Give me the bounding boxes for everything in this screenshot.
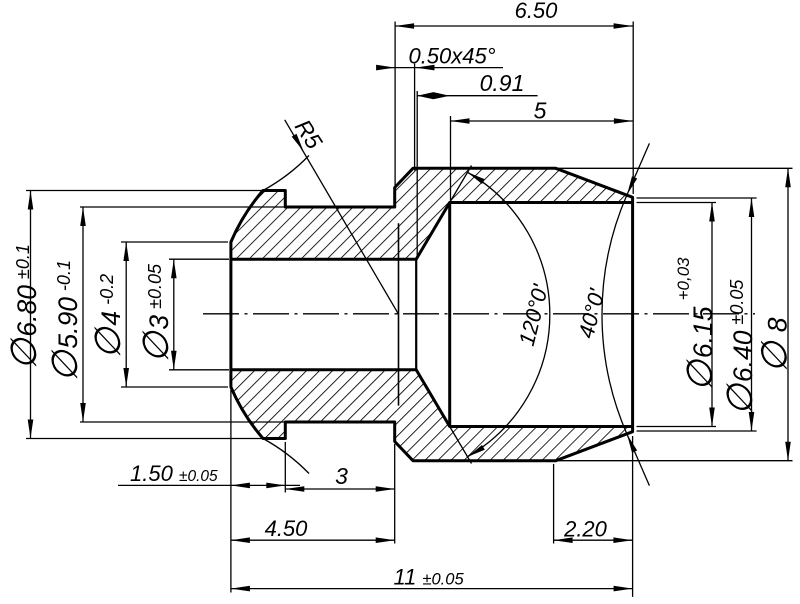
- svg-text:∅3±0.05: ∅3±0.05: [135, 263, 176, 363]
- svg-text:5: 5: [534, 98, 547, 124]
- svg-text:∅ 8: ∅ 8: [754, 317, 795, 373]
- svg-text:∅5.90-0.1: ∅5.90-0.1: [44, 260, 85, 382]
- svg-text:3: 3: [335, 463, 348, 489]
- svg-text:+0,03: +0,03: [674, 257, 693, 301]
- svg-text:11 ±0.05: 11 ±0.05: [394, 565, 465, 590]
- svg-text:4.50: 4.50: [265, 516, 309, 541]
- svg-text:120°0': 120°0': [514, 281, 553, 348]
- svg-text:40°0': 40°0': [573, 286, 609, 341]
- svg-text:1.50 ±0.05: 1.50 ±0.05: [130, 461, 218, 486]
- svg-text:∅4-0.2: ∅4-0.2: [87, 274, 128, 359]
- svg-text:0.91: 0.91: [480, 70, 525, 96]
- svg-text:R5: R5: [290, 115, 328, 154]
- svg-text:∅6.80±0.1: ∅6.80±0.1: [3, 244, 44, 370]
- svg-text:6.50: 6.50: [515, 0, 559, 23]
- svg-text:∅6.15: ∅6.15: [679, 306, 720, 391]
- svg-text:2.20: 2.20: [563, 517, 608, 542]
- svg-text:0.50x45°: 0.50x45°: [408, 44, 495, 69]
